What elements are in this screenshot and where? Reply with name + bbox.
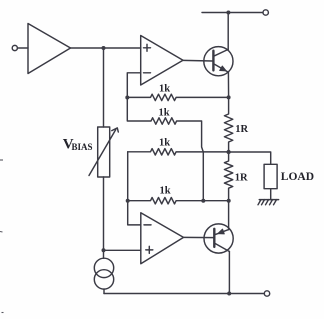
svg-text:1R: 1R — [235, 124, 248, 135]
svg-text:LOAD: LOAD — [281, 171, 314, 183]
svg-text:1k: 1k — [159, 107, 170, 118]
svg-text:1k: 1k — [160, 185, 171, 196]
svg-text:BIAS: BIAS — [72, 142, 93, 152]
svg-text:1k: 1k — [159, 138, 170, 149]
svg-text:1k: 1k — [159, 83, 170, 94]
svg-text:1R: 1R — [235, 173, 248, 184]
